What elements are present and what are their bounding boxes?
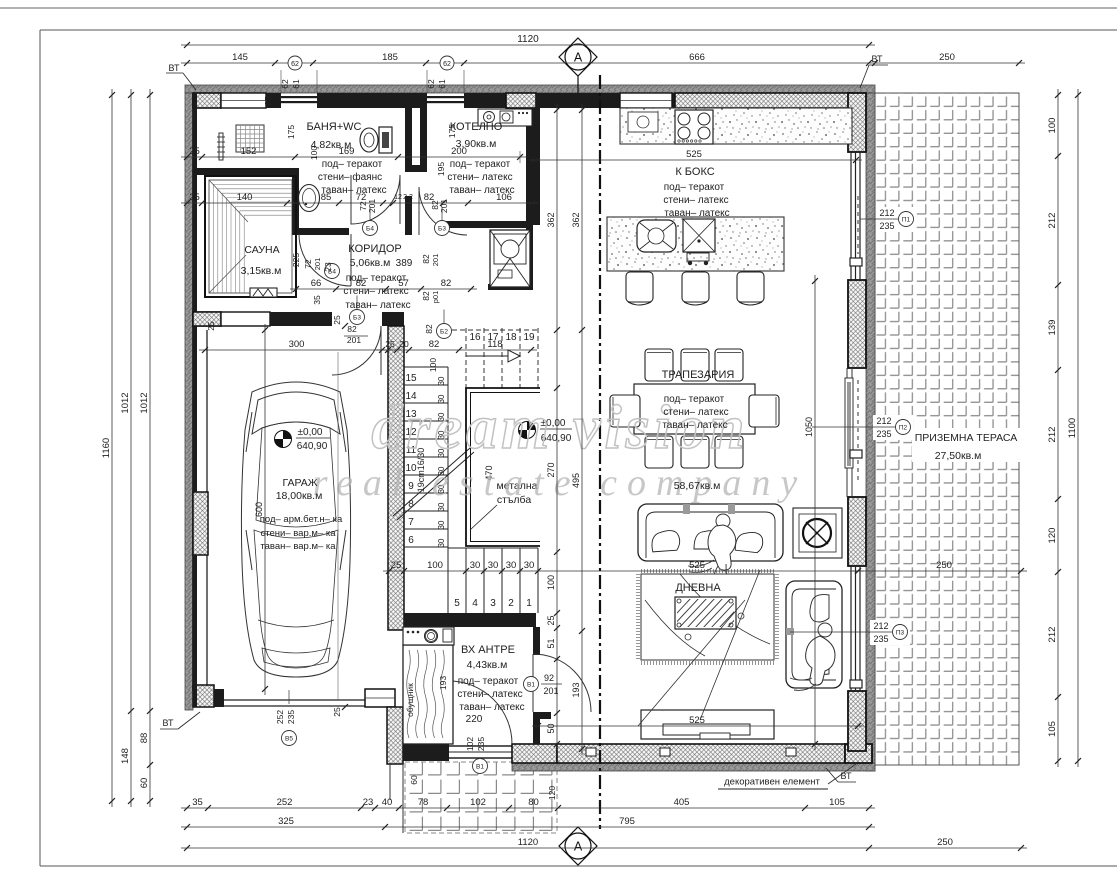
svg-text:25: 25 xyxy=(546,615,556,625)
car in garage xyxy=(241,382,350,677)
exterior wall insulation strip left xyxy=(185,93,193,710)
window W2 top xyxy=(427,96,464,98)
exterior wall insulation strip top xyxy=(185,85,875,93)
stairs break line xyxy=(393,448,470,516)
poz B1 antre xyxy=(524,677,539,692)
dining chair right xyxy=(749,395,779,427)
svg-text:П2: П2 xyxy=(899,425,908,432)
right wall pier 2 xyxy=(848,280,866,368)
svg-text:666: 666 xyxy=(689,52,705,63)
island sink rounded xyxy=(637,220,676,252)
sauna dimension row 25 140 85 72 82 106 xyxy=(181,202,538,204)
svg-text:82: 82 xyxy=(421,291,431,301)
svg-text:обущник: обущник xyxy=(405,683,415,717)
right wall jamb marks xyxy=(850,258,862,266)
stairs level mark xyxy=(519,422,536,439)
svg-text:6: 6 xyxy=(408,535,414,546)
antre east wall lower stub xyxy=(533,712,551,719)
svg-text:85: 85 xyxy=(321,192,332,203)
svg-text:23: 23 xyxy=(323,262,333,272)
svg-text:В1: В1 xyxy=(527,682,535,689)
stairs direction arrow xyxy=(508,350,520,362)
left dimension chain outer 1160 xyxy=(111,89,113,807)
svg-text:КОРИДОР: КОРИДОР xyxy=(348,243,401,255)
bottom wall living segment hatched xyxy=(557,744,845,763)
svg-text:18: 18 xyxy=(505,332,517,343)
svg-text:250: 250 xyxy=(936,560,952,571)
terrace tile paving ПРИЗЕМНА ТЕРАСА xyxy=(875,93,1019,765)
svg-text:235: 235 xyxy=(476,737,486,751)
svg-text:1: 1 xyxy=(526,598,532,609)
svg-text:139: 139 xyxy=(1047,320,1058,336)
right window frame 1 xyxy=(850,152,852,280)
bath dimension row 25 152 169 200 xyxy=(181,156,526,158)
svg-text:2: 2 xyxy=(508,598,514,609)
section line A-A xyxy=(599,75,601,829)
poz B2 stairs xyxy=(437,324,452,339)
bottom right corner pier xyxy=(845,744,872,763)
svg-text:212: 212 xyxy=(1047,627,1058,643)
sofa 2-seat vertical xyxy=(786,581,842,688)
boiler room sink unit top xyxy=(478,109,532,126)
dining chair top 3 xyxy=(715,349,743,381)
svg-text:30: 30 xyxy=(524,560,535,571)
poz P1 terrace xyxy=(876,207,916,232)
bottom dimension row 1120 250 xyxy=(181,847,1027,849)
svg-text:САУНА: САУНА xyxy=(244,244,279,256)
svg-text:27,50кв.м: 27,50кв.м xyxy=(935,450,982,462)
svg-text:525: 525 xyxy=(686,149,702,160)
svg-text:4: 4 xyxy=(472,598,478,609)
svg-text:18,00кв.м: 18,00кв.м xyxy=(276,490,323,502)
bar stool 1 xyxy=(626,272,653,302)
top wall hatched band kitchen xyxy=(675,93,854,108)
left wall solid segments xyxy=(193,93,197,313)
poz B3 lower xyxy=(350,310,365,325)
garage top wall pier xyxy=(193,312,221,326)
svg-text:1050: 1050 xyxy=(804,417,814,437)
door entrance->antre xyxy=(449,681,512,744)
antre closet obuvnik xyxy=(403,645,453,744)
window tag circle 62 left xyxy=(288,56,302,70)
boiler washing sink with X xyxy=(490,230,530,287)
dining chair top 1 xyxy=(645,349,673,381)
exterior wall insulation strip right xyxy=(866,93,875,771)
living 525 dim lower xyxy=(532,725,864,727)
coffee table hatched xyxy=(675,597,736,629)
svg-text:30: 30 xyxy=(488,560,499,571)
svg-text:стени– латекс: стени– латекс xyxy=(457,689,522,700)
garage top wall segment xyxy=(270,312,332,326)
svg-text:118: 118 xyxy=(487,339,502,350)
svg-text:25: 25 xyxy=(189,192,200,203)
svg-text:3: 3 xyxy=(490,598,496,609)
towel radiator xyxy=(219,133,223,160)
svg-text:р01: р01 xyxy=(431,291,440,304)
svg-text:ВТ: ВТ xyxy=(872,54,883,64)
door corridor->sauna room xyxy=(299,234,351,286)
svg-text:35: 35 xyxy=(192,797,203,808)
garage door opening xyxy=(224,699,365,701)
stairs bottom wall xyxy=(404,613,536,627)
svg-text:82: 82 xyxy=(347,324,357,334)
svg-text:под– теракот: под– теракот xyxy=(458,676,519,687)
svg-text:ГАРАЖ: ГАРАЖ xyxy=(283,477,318,489)
svg-text:12: 12 xyxy=(394,194,402,201)
svg-text:100: 100 xyxy=(546,575,556,590)
bottom dimension row small segments xyxy=(181,807,875,809)
svg-text:57: 57 xyxy=(398,278,409,289)
svg-text:1120: 1120 xyxy=(518,837,538,848)
vertical dim chain x557 xyxy=(556,104,558,750)
kitchen counter along top wall xyxy=(620,108,852,144)
poz B washing xyxy=(426,631,437,642)
right sliding door opening xyxy=(846,368,848,497)
svg-text:30: 30 xyxy=(437,520,446,529)
svg-text:82: 82 xyxy=(424,324,434,334)
svg-text:62: 62 xyxy=(280,79,290,89)
svg-text:1012: 1012 xyxy=(120,392,131,413)
svg-text:25: 25 xyxy=(332,315,342,325)
svg-text:525: 525 xyxy=(689,560,705,571)
svg-text:ВТ: ВТ xyxy=(841,771,852,781)
svg-text:145: 145 xyxy=(232,52,248,63)
bath south-west L wall vertical xyxy=(292,168,299,234)
right terrace dim 250 y571 xyxy=(852,570,1027,572)
svg-text:62: 62 xyxy=(426,79,436,89)
svg-text:П1: П1 xyxy=(902,217,911,224)
kitchen cooktop 4 burners xyxy=(675,110,713,144)
svg-text:200: 200 xyxy=(451,146,467,157)
svg-text:ВТ: ВТ xyxy=(163,718,174,728)
exterior wall insulation strip bottom xyxy=(512,763,875,771)
sauna cabin walls xyxy=(205,176,296,297)
svg-text:195: 195 xyxy=(436,162,446,176)
svg-text:±0,00: ±0,00 xyxy=(298,427,323,438)
svg-text:таван– латекс: таван– латекс xyxy=(664,208,729,219)
window tag circle 62 right xyxy=(440,56,454,70)
bottom wall pier hatched xyxy=(512,744,557,763)
label декоративен елемент xyxy=(716,772,828,789)
svg-text:405: 405 xyxy=(674,797,690,808)
svg-text:212: 212 xyxy=(876,416,891,426)
bath south L wall horizontal xyxy=(292,228,349,235)
svg-text:193: 193 xyxy=(571,682,581,697)
svg-text:169: 169 xyxy=(339,146,355,157)
svg-text:1120: 1120 xyxy=(517,34,539,45)
poz P3 terrace xyxy=(870,620,910,645)
svg-text:250: 250 xyxy=(937,837,953,848)
top wall window box xyxy=(221,93,266,108)
door boiler->corridor xyxy=(419,187,467,235)
svg-text:A: A xyxy=(574,840,583,854)
svg-text:80: 80 xyxy=(528,797,539,808)
svg-text:30: 30 xyxy=(506,560,517,571)
svg-text:212: 212 xyxy=(873,621,888,631)
svg-text:КОТЕЛНО: КОТЕЛНО xyxy=(450,121,503,133)
label ПРИЗЕМНА ТЕРАСА xyxy=(912,428,1020,462)
svg-text:92: 92 xyxy=(544,673,554,683)
svg-text:51: 51 xyxy=(546,638,556,648)
svg-text:140: 140 xyxy=(237,192,253,203)
garage bottom window box xyxy=(365,689,395,707)
svg-text:Б4: Б4 xyxy=(366,225,374,232)
dining chair left xyxy=(610,395,640,427)
svg-text:640,90: 640,90 xyxy=(297,441,328,452)
svg-text:под– теракот: под– теракот xyxy=(664,394,725,405)
svg-text:30: 30 xyxy=(437,376,446,385)
svg-text:212: 212 xyxy=(1047,213,1058,229)
svg-text:72: 72 xyxy=(303,259,313,269)
garage top wall east segment xyxy=(382,312,404,326)
svg-text:362: 362 xyxy=(546,212,556,227)
wall step down to entrance xyxy=(387,707,403,764)
svg-text:Б2: Б2 xyxy=(440,328,448,335)
svg-text:389: 389 xyxy=(396,258,413,269)
boiler west wall lower stub xyxy=(405,196,412,235)
svg-text:100: 100 xyxy=(309,146,319,160)
svg-text:82: 82 xyxy=(421,254,431,264)
svg-text:под– теракот: под– теракот xyxy=(322,159,383,170)
kitchen niche sink walls xyxy=(526,225,533,290)
svg-text:220: 220 xyxy=(466,714,483,725)
boiler/kitchen east wall xyxy=(526,108,540,225)
svg-text:25: 25 xyxy=(391,560,402,571)
poz P2 terrace xyxy=(873,415,913,440)
top wall segment kitchen left xyxy=(536,93,675,108)
svg-text:таван– вар.м– ка: таван– вар.м– ка xyxy=(260,541,336,552)
stairs west wall hatched xyxy=(388,326,404,630)
svg-text:25: 25 xyxy=(332,707,342,717)
poz B5 garage xyxy=(282,731,297,746)
svg-text:193: 193 xyxy=(438,676,448,690)
svg-text:30: 30 xyxy=(437,538,446,547)
svg-text:Б3: Б3 xyxy=(353,314,361,321)
right dimension chain overall 1100 xyxy=(1077,89,1079,767)
svg-text:16: 16 xyxy=(469,332,481,343)
svg-text:25: 25 xyxy=(206,321,216,331)
svg-text:105: 105 xyxy=(829,797,845,808)
svg-text:62: 62 xyxy=(291,61,299,68)
section marker A top xyxy=(559,38,597,76)
svg-text:102: 102 xyxy=(465,737,475,751)
top wall pier hatched xyxy=(506,93,536,108)
left dimension chain inner xyxy=(149,89,151,807)
svg-text:25: 25 xyxy=(385,339,395,349)
bar stool 2 xyxy=(682,272,709,302)
svg-text:К БОКС: К БОКС xyxy=(675,166,714,178)
bottom wall jamb marks xyxy=(586,748,596,756)
window W1 top xyxy=(281,96,317,98)
toilet WC xyxy=(360,128,378,152)
right top corner pier xyxy=(848,93,866,152)
sauna heater xyxy=(250,288,277,297)
top wall segment xyxy=(266,93,281,108)
svg-text:201: 201 xyxy=(313,258,322,271)
top dimension row 1120 overall xyxy=(181,44,875,46)
kitchen width dim 525 xyxy=(530,159,862,161)
svg-text:5: 5 xyxy=(454,598,460,609)
svg-text:стени– фаянс: стени– фаянс xyxy=(318,171,382,183)
svg-text:под– теракот: под– теракот xyxy=(450,159,511,170)
vertical dim chain x582 xyxy=(581,104,583,755)
svg-text:60: 60 xyxy=(409,775,419,785)
svg-text:2,2: 2,2 xyxy=(403,194,413,201)
left wall pier at sauna/garage wall xyxy=(193,312,221,326)
svg-text:В1: В1 xyxy=(476,764,484,771)
svg-text:real estate company: real estate company xyxy=(313,462,808,504)
svg-text:В5: В5 xyxy=(285,736,293,743)
svg-text:175: 175 xyxy=(447,124,457,138)
top wall pier hatched left corner xyxy=(193,93,221,108)
dining table xyxy=(634,384,755,434)
svg-text:стени– латекс: стени– латекс xyxy=(663,407,728,418)
TV leader line xyxy=(638,600,745,726)
svg-text:100: 100 xyxy=(1047,118,1058,134)
right wall pier 3 xyxy=(848,497,866,566)
level/width dim row y571 across xyxy=(383,570,864,572)
svg-text:495: 495 xyxy=(571,473,581,488)
garage top wall window box xyxy=(221,312,270,326)
kitchen sink top xyxy=(628,112,658,132)
svg-text:106: 106 xyxy=(496,192,512,203)
svg-text:стени– латекс: стени– латекс xyxy=(447,172,512,183)
garage center line xyxy=(337,352,339,700)
bar stool 3 xyxy=(737,272,764,302)
bath bottom wall xyxy=(196,168,296,175)
wash basin bath xyxy=(299,185,320,212)
top wall white box kitchen xyxy=(620,93,672,108)
svg-text:235: 235 xyxy=(873,634,888,644)
svg-text:25: 25 xyxy=(263,96,273,106)
door corridor->garage xyxy=(332,326,381,375)
svg-text:212: 212 xyxy=(879,208,894,218)
antre east wall upper xyxy=(533,627,540,655)
sheet frame border xyxy=(0,7,1117,9)
svg-text:4,43кв.м: 4,43кв.м xyxy=(467,659,508,671)
svg-text:1100: 1100 xyxy=(1067,418,1078,438)
svg-text:300: 300 xyxy=(289,339,305,350)
svg-text:362: 362 xyxy=(571,212,581,227)
svg-text:120: 120 xyxy=(1047,528,1058,544)
door antre->living xyxy=(533,654,591,712)
right wall opening dashes xyxy=(857,196,859,254)
right window frame 2 xyxy=(850,566,852,691)
sofa 3-seat xyxy=(638,504,783,561)
svg-text:201: 201 xyxy=(367,199,377,213)
vertical dim kitchen 1050 xyxy=(814,275,816,750)
vertical dim garage 600 xyxy=(264,324,266,695)
dining chair bottom 1 xyxy=(645,436,673,468)
svg-text:82: 82 xyxy=(424,192,435,203)
section marker A bottom xyxy=(559,827,597,865)
svg-text:82: 82 xyxy=(356,278,367,289)
svg-text:25: 25 xyxy=(189,146,200,157)
person on sofa xyxy=(716,514,730,528)
dining chair top 2 xyxy=(681,349,709,381)
bottom wall antre segment xyxy=(403,744,449,761)
svg-text:66: 66 xyxy=(311,278,322,289)
svg-text:600: 600 xyxy=(254,502,264,517)
svg-text:ВХ АНТРЕ: ВХ АНТРЕ xyxy=(461,644,515,656)
svg-text:185: 185 xyxy=(382,52,398,63)
side table with lamp xyxy=(793,508,842,558)
poz B4 sauna door xyxy=(325,264,340,279)
kitchen island counter xyxy=(607,217,784,271)
svg-text:58,67кв.м: 58,67кв.м xyxy=(674,480,721,492)
right wall bottom corner pier xyxy=(848,691,866,751)
svg-text:201: 201 xyxy=(347,335,361,345)
svg-text:A: A xyxy=(574,51,583,65)
svg-text:201: 201 xyxy=(543,686,558,696)
bottom dimension row 325 795 xyxy=(181,826,875,828)
svg-text:ПРИЗЕМНА ТЕРАСА: ПРИЗЕМНА ТЕРАСА xyxy=(915,432,1018,444)
porch side step lines xyxy=(389,764,391,800)
svg-text:252: 252 xyxy=(277,797,293,808)
svg-text:50: 50 xyxy=(546,723,556,733)
svg-text:30: 30 xyxy=(470,560,481,571)
left dimension chain middle xyxy=(130,89,132,807)
island small trolley xyxy=(687,253,709,261)
poz B3 corridor right xyxy=(435,221,450,236)
left wall inner faces xyxy=(192,93,194,691)
svg-text:325: 325 xyxy=(278,816,294,827)
left wall bottom corner pier xyxy=(193,685,214,707)
svg-text:225: 225 xyxy=(291,253,301,267)
door bath->corridor xyxy=(351,175,400,224)
svg-text:стени– вар.м– ка: стени– вар.м– ка xyxy=(260,528,336,539)
svg-text:7: 7 xyxy=(408,517,414,528)
svg-text:3,15кв.м: 3,15кв.м xyxy=(241,265,282,277)
rug with fringe xyxy=(641,574,774,660)
svg-text:250: 250 xyxy=(939,52,955,63)
svg-text:15: 15 xyxy=(405,373,417,384)
svg-text:212: 212 xyxy=(1047,427,1058,443)
svg-text:235: 235 xyxy=(286,710,296,724)
antre top cabinet with icons xyxy=(403,627,454,645)
stairs upper flight treads xyxy=(404,367,448,547)
shower tray xyxy=(236,125,264,152)
stairs top dimension row 25 20 82 118 xyxy=(376,349,537,351)
svg-text:61: 61 xyxy=(437,79,447,89)
stairs lower flight treads xyxy=(448,548,538,613)
poz B4 corridor xyxy=(363,221,378,236)
svg-text:82: 82 xyxy=(441,278,452,289)
car level mark xyxy=(275,431,292,448)
garage bottom wall left segment xyxy=(214,689,224,707)
wall bath/boiler vertical xyxy=(405,108,412,168)
svg-text:252: 252 xyxy=(275,710,285,724)
svg-text:1012: 1012 xyxy=(139,392,150,413)
svg-text:ДНЕВНА: ДНЕВНА xyxy=(675,582,721,594)
right dimension chain segments xyxy=(1057,89,1059,767)
top wall segment bath xyxy=(317,93,427,108)
svg-text:102: 102 xyxy=(470,797,486,808)
svg-text:декоративен елемент: декоративен елемент xyxy=(724,777,820,788)
svg-text:148: 148 xyxy=(120,748,131,764)
svg-text:270: 270 xyxy=(546,462,556,477)
svg-text:20: 20 xyxy=(399,339,409,349)
sauna diagonal corner xyxy=(209,180,248,222)
TV cabinet xyxy=(641,710,774,739)
svg-text:100: 100 xyxy=(428,358,438,372)
svg-text:23: 23 xyxy=(363,797,374,808)
svg-text:201: 201 xyxy=(431,254,440,267)
svg-text:61: 61 xyxy=(291,79,301,89)
svg-text:72: 72 xyxy=(356,192,367,203)
svg-text:100: 100 xyxy=(427,560,443,571)
svg-text:таван– латекс: таван– латекс xyxy=(459,702,524,713)
